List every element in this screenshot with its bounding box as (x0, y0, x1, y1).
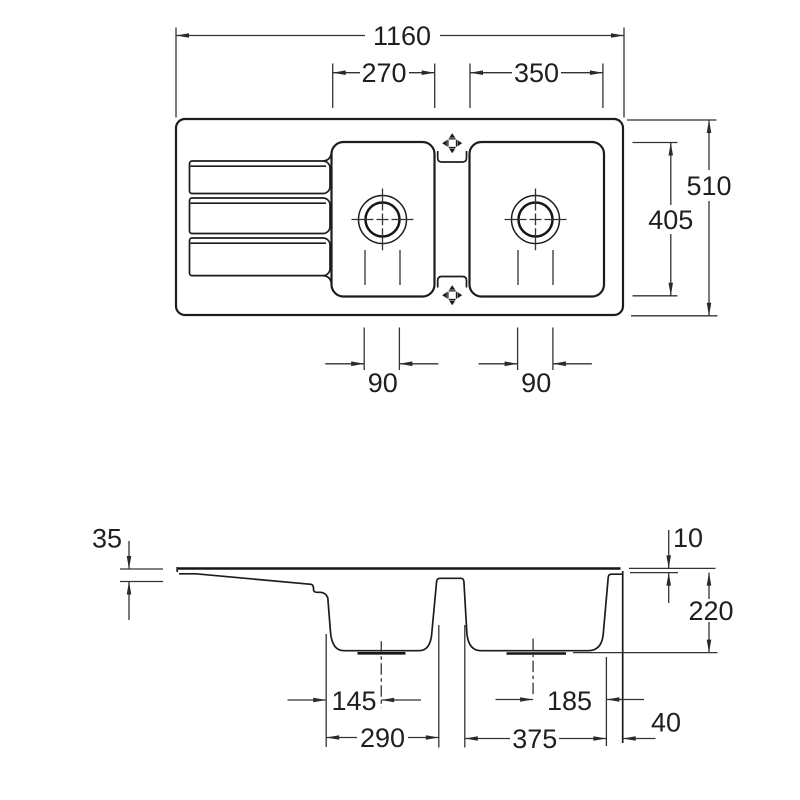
svg-text:290: 290 (360, 723, 405, 753)
svg-text:185: 185 (547, 686, 592, 716)
svg-text:350: 350 (514, 58, 559, 88)
svg-text:35: 35 (92, 524, 122, 554)
svg-text:220: 220 (688, 596, 733, 626)
svg-text:145: 145 (331, 686, 376, 716)
svg-text:90: 90 (521, 368, 551, 398)
svg-text:40: 40 (651, 708, 681, 738)
svg-text:90: 90 (368, 368, 398, 398)
svg-text:10: 10 (673, 523, 703, 553)
svg-text:405: 405 (648, 205, 693, 235)
svg-text:270: 270 (361, 58, 406, 88)
svg-text:510: 510 (686, 171, 731, 201)
svg-text:375: 375 (512, 724, 557, 754)
svg-text:1160: 1160 (373, 21, 431, 51)
